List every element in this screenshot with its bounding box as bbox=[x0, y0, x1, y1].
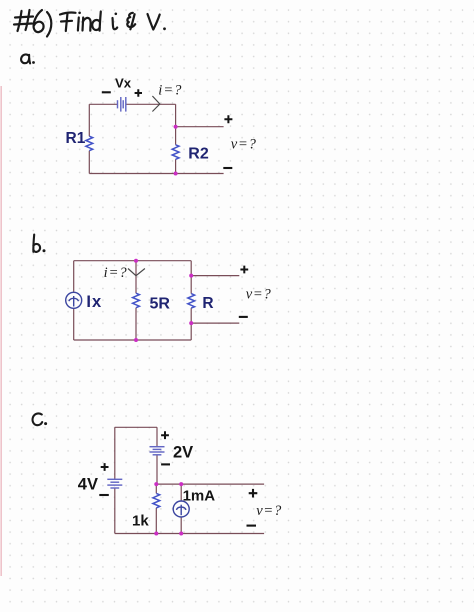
svg-text:v=?: v=? bbox=[256, 503, 282, 519]
node: junction a top bbox=[174, 125, 178, 129]
wire: loop c left with gap for 4V bbox=[114, 427, 116, 533]
battery 2V bbox=[150, 447, 165, 455]
minus sign of v output c bbox=[247, 525, 257, 527]
minus sign of v output a bbox=[223, 167, 232, 169]
wire: loop c top bbox=[115, 426, 157, 428]
svg-text:v=?: v=? bbox=[246, 286, 272, 302]
wire: loop a top-left segment bbox=[89, 103, 117, 105]
svg-text:v=?: v=? bbox=[231, 137, 257, 153]
svg-text:R2: R2 bbox=[188, 146, 209, 163]
page edge line bbox=[0, 86, 2, 576]
svg-text:i=?: i=? bbox=[158, 82, 182, 98]
wire: middle node horizontal bbox=[156, 483, 264, 485]
battery 4V bbox=[107, 479, 122, 488]
wire: loop c bottom bbox=[115, 533, 264, 535]
wire: loop a bottom with lead to minus terminal bbox=[89, 173, 223, 175]
plus sign of 2V bbox=[161, 431, 169, 439]
label a. handwriting bbox=[21, 54, 30, 63]
battery Vx bbox=[118, 97, 126, 112]
wire: loop b right side bbox=[190, 261, 192, 340]
minus sign of Vx bbox=[102, 91, 111, 93]
node: junction b middle top bbox=[134, 259, 138, 263]
node: junction b right top bbox=[189, 274, 193, 278]
resistor 1k bbox=[153, 493, 160, 508]
wire: output lead v- (b) bbox=[191, 322, 239, 324]
svg-text:4V: 4V bbox=[78, 476, 98, 494]
node: junction c mid-left bbox=[154, 482, 158, 486]
wire: loop a left side bbox=[88, 104, 90, 173]
svg-text:i=?: i=? bbox=[104, 265, 128, 281]
resistor R1 bbox=[86, 136, 93, 151]
resistor R2 bbox=[172, 145, 179, 160]
plus sign of v output a bbox=[224, 115, 232, 123]
node: junction b right bottom bbox=[189, 321, 193, 325]
svg-text:R: R bbox=[202, 295, 213, 312]
wire: 1mA branch bbox=[180, 484, 182, 533]
plus sign of 4V bbox=[101, 463, 109, 471]
wire: loop b bottom bbox=[74, 339, 192, 341]
current arrow i (b) bbox=[128, 269, 145, 276]
minus sign of 4V bbox=[99, 494, 109, 496]
wire: output lead v+ (b) bbox=[191, 275, 239, 277]
node: junction c bottom-left bbox=[154, 532, 158, 536]
plus sign of v output b bbox=[240, 266, 248, 274]
node: junction c bottom-right bbox=[179, 532, 183, 536]
wire: 1k branch bbox=[155, 484, 157, 533]
current source Ix bbox=[66, 292, 82, 308]
wire: middle branch 5R bbox=[135, 261, 137, 340]
current arrow i bbox=[152, 96, 159, 112]
plus sign of Vx bbox=[135, 89, 142, 96]
svg-text:Ix: Ix bbox=[86, 293, 102, 311]
svg-text:Vx: Vx bbox=[115, 75, 132, 90]
svg-text:1k: 1k bbox=[132, 513, 149, 530]
current source 1mA bbox=[173, 501, 189, 517]
minus sign of 2V bbox=[161, 463, 170, 465]
resistor R (b) bbox=[188, 294, 195, 309]
plus sign of v output c bbox=[249, 489, 258, 498]
label c. handwriting bbox=[33, 413, 43, 425]
node: junction b middle bottom bbox=[134, 338, 138, 342]
svg-text:1mA: 1mA bbox=[183, 487, 216, 504]
minus sign of v output b bbox=[239, 316, 248, 318]
wire: loop b top bbox=[74, 260, 192, 262]
node: junction c mid-right bbox=[179, 482, 183, 486]
svg-text:2V: 2V bbox=[173, 444, 193, 462]
node: junction a bottom bbox=[174, 172, 178, 176]
resistor 5R bbox=[133, 293, 140, 308]
label b. handwriting bbox=[33, 235, 40, 252]
wire: loop a right side bbox=[175, 104, 177, 173]
wire: 2V branch bbox=[156, 427, 158, 484]
wire: loop b left with gap for source bbox=[73, 261, 75, 340]
svg-text:R1: R1 bbox=[66, 130, 86, 147]
wire: loop a top-right segment bbox=[126, 103, 176, 105]
wire: output lead v+ bbox=[176, 126, 224, 128]
title handwriting "#6) Find i & V." bbox=[14, 10, 160, 37]
svg-text:5R: 5R bbox=[150, 296, 171, 313]
